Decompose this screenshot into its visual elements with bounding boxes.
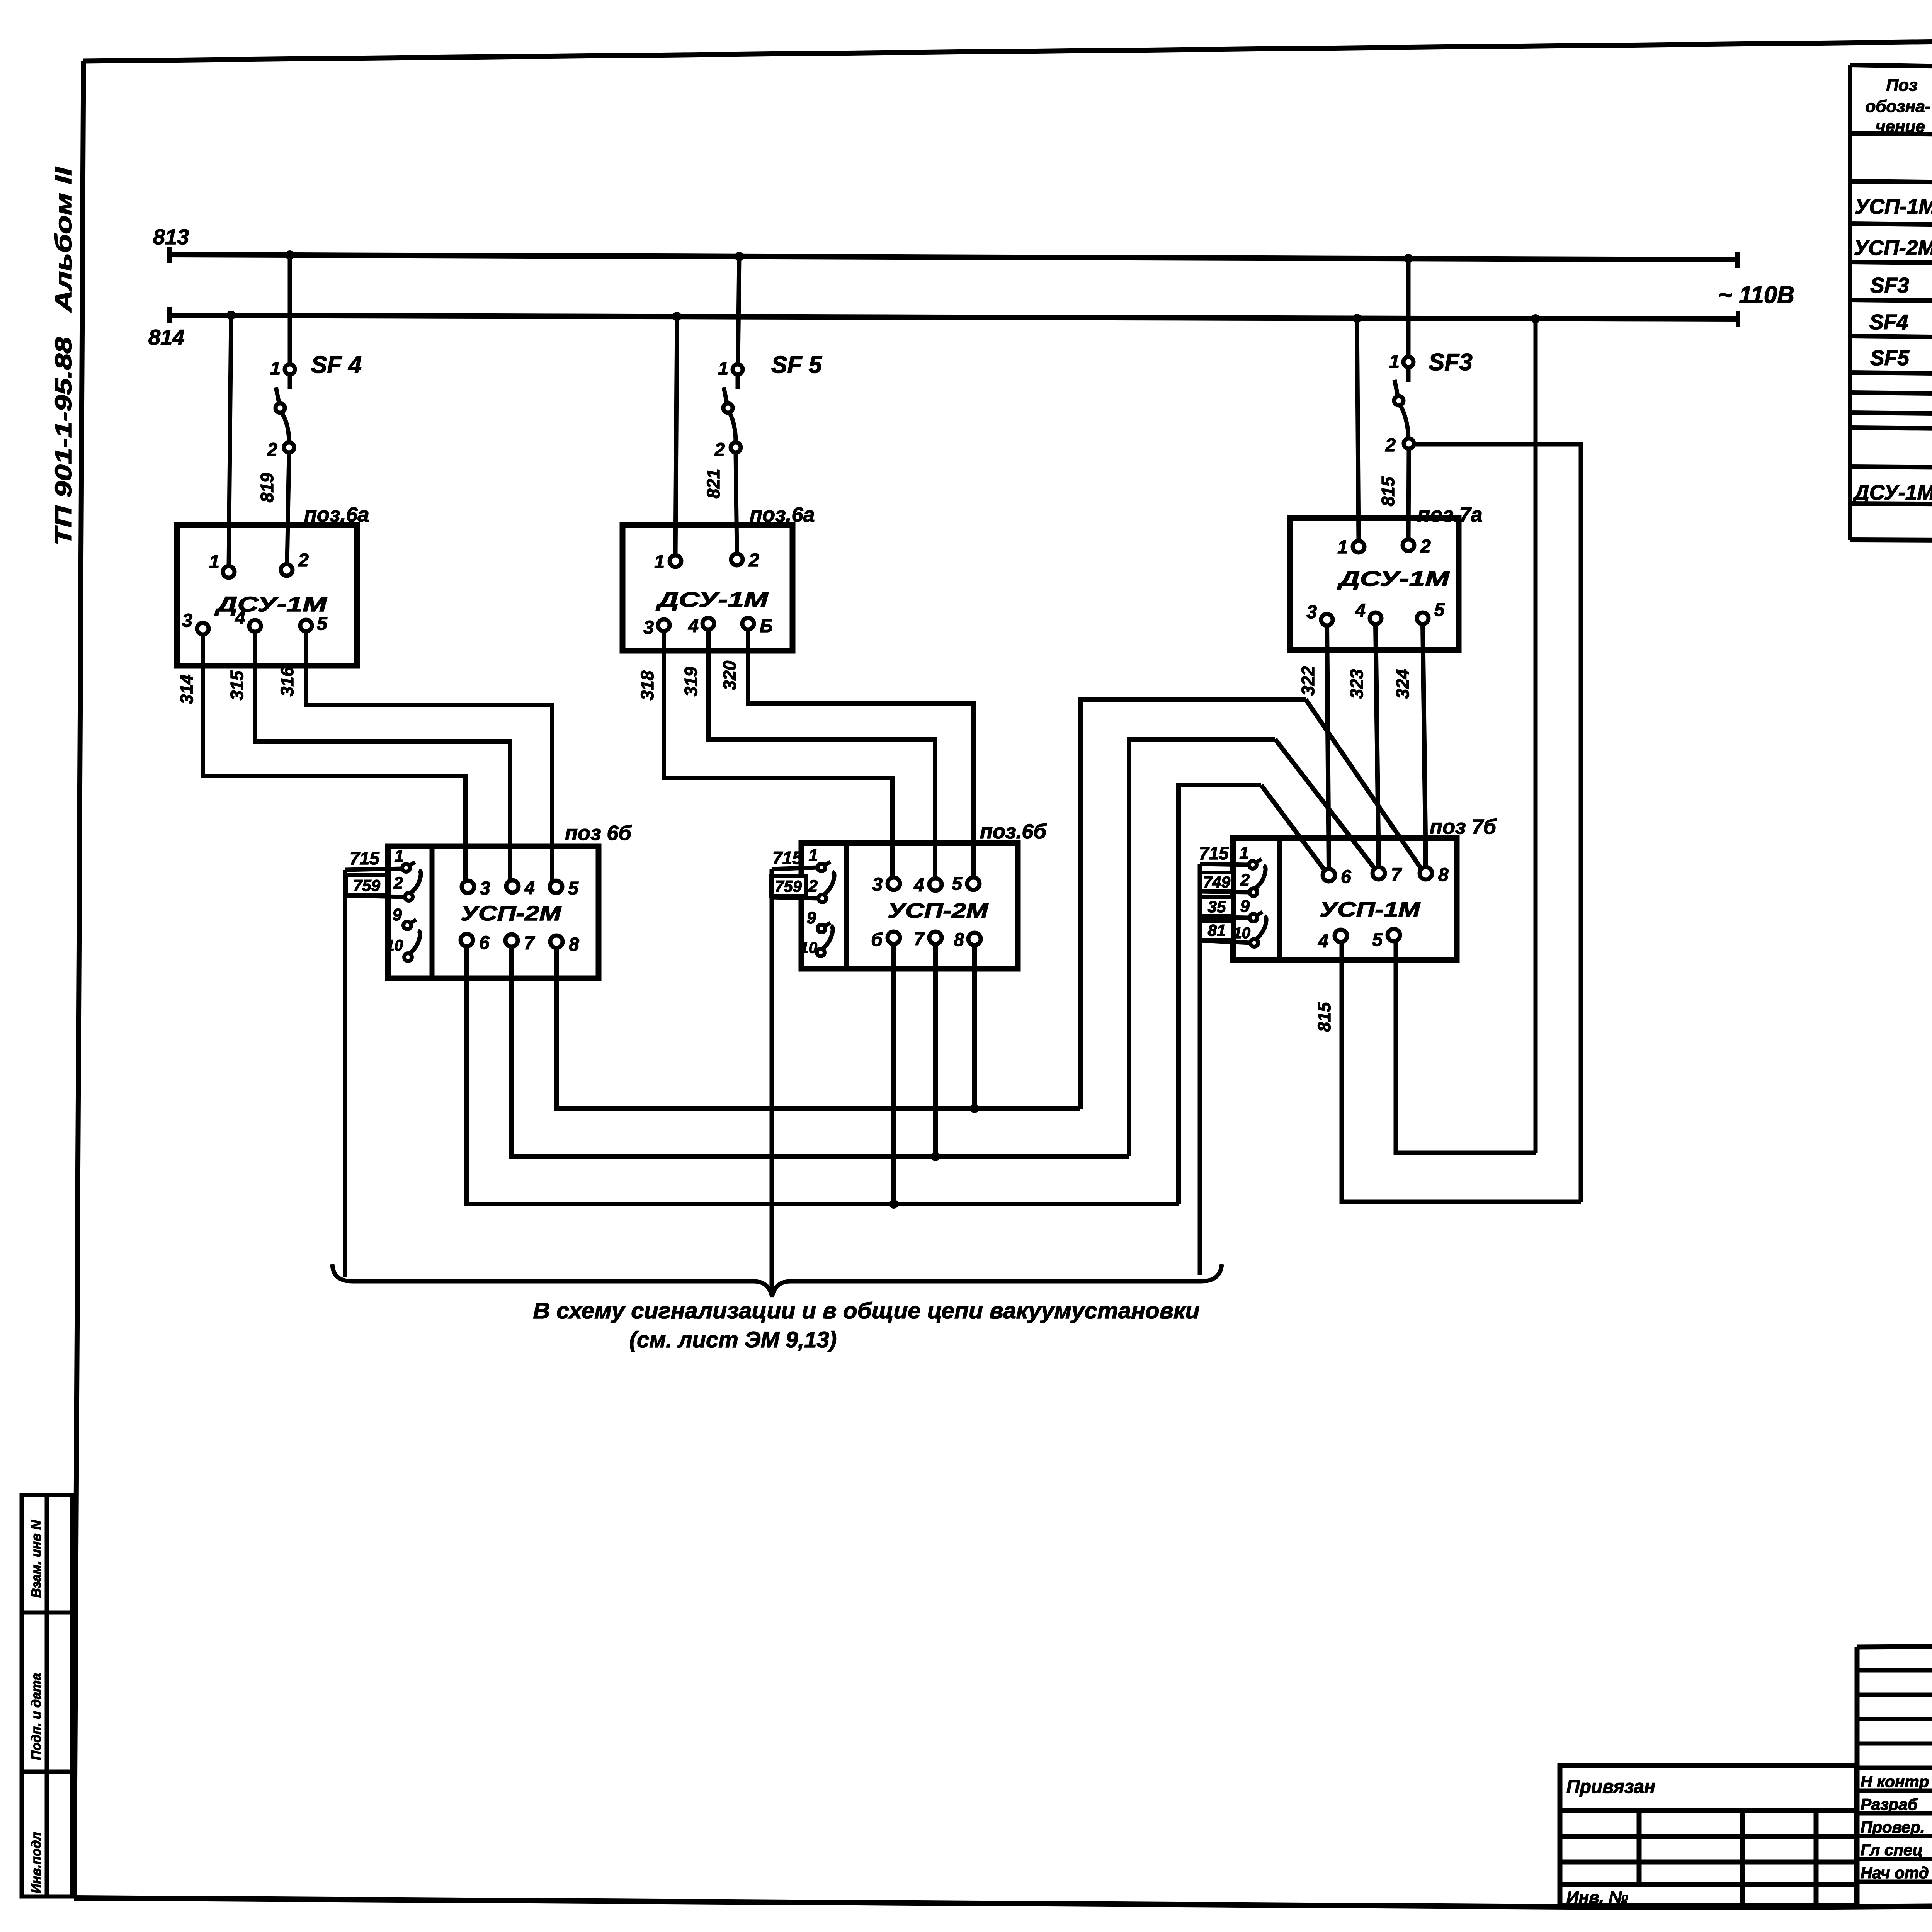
USP2M2 pin 5 (967, 878, 980, 890)
node junction pin8 bus (970, 1104, 979, 1113)
svg-text:Привязан: Привязан (1566, 1777, 1655, 1797)
title block small grid rows (1857, 1670, 1932, 1882)
svg-text:4: 4 (1318, 931, 1328, 952)
wire tag 749 (1201, 872, 1233, 891)
svg-text:SF4: SF4 (1869, 310, 1908, 334)
svg-text:5: 5 (1372, 930, 1383, 950)
DSU2 pin 2 (731, 554, 743, 565)
svg-text:815: 815 (1378, 476, 1398, 506)
svg-text:ДСУ-1М: ДСУ-1М (656, 588, 769, 611)
svg-text:УСП-1М: УСП-1М (1320, 898, 1420, 921)
svg-text:2: 2 (298, 550, 309, 571)
wire 315 (255, 632, 510, 880)
USP1M pin 5 (1388, 929, 1400, 941)
svg-text:В схему сигнализации и в общи: В схему сигнализации и в общие цепи ваку… (533, 1298, 1200, 1323)
svg-text:9: 9 (807, 908, 816, 927)
USP2M1 contact 9 (393, 905, 416, 929)
wire pin6 bus bottom (467, 946, 1179, 1204)
svg-text:322: 322 (1298, 666, 1318, 696)
svg-text:ДСУ-1М: ДСУ-1М (1337, 567, 1450, 590)
sensor DSU-1M no1 box (177, 525, 357, 666)
svg-text:Инв. №: Инв. № (1566, 1888, 1628, 1907)
svg-text:316: 316 (277, 667, 297, 696)
wire 319 (708, 629, 935, 878)
svg-text:Б: Б (760, 616, 773, 636)
wire riser to usp1m pin5 (1396, 941, 1536, 1153)
svg-text:б: б (871, 930, 883, 950)
border frame top (83, 34, 1932, 61)
DSU2 pin 1 (670, 555, 681, 567)
svg-text:УСП-2М: УСП-2М (1854, 236, 1932, 260)
DSU3 pin 1 (1353, 541, 1364, 553)
receiver USP-2M no1 box (388, 846, 599, 978)
USP2M1 contact 1 (395, 847, 415, 872)
svg-text:Поз: Поз (1886, 76, 1918, 95)
svg-text:Альбом II: Альбом II (51, 167, 77, 313)
svg-text:7: 7 (524, 933, 535, 954)
svg-text:3: 3 (643, 617, 654, 638)
wire 316 (306, 631, 552, 881)
svg-text:поз 7б: поз 7б (1430, 815, 1497, 838)
USP1M contact 1 (1240, 844, 1262, 869)
svg-text:SF5: SF5 (1870, 346, 1910, 370)
wire 749 usp1m (1200, 891, 1250, 892)
USP2M1 pin 5 (550, 881, 562, 893)
title block frame (1857, 1642, 1932, 1906)
wire 814 to DSU1 pin1 (229, 315, 231, 566)
svg-text:2: 2 (808, 877, 818, 896)
USP1M pin 8 (1420, 867, 1432, 879)
wire 715 usp1m (1200, 864, 1249, 865)
wire 759 usp2m2 (772, 897, 818, 898)
svg-text:315: 315 (227, 670, 247, 700)
svg-text:320: 320 (719, 660, 740, 690)
svg-text:81: 81 (1208, 921, 1226, 939)
table header poz oboznachenie (1865, 76, 1930, 136)
svg-text:УСП-2М: УСП-2М (888, 899, 988, 922)
wire 324 (1423, 624, 1426, 867)
DSU1 pin 4 (249, 620, 261, 632)
USP2M1 pin 3 (462, 881, 474, 893)
svg-text:1: 1 (209, 552, 219, 572)
node junction pin6 bus (889, 1199, 898, 1209)
wire usp2m2 pin8 to usp1m pin8 riser (1080, 699, 1306, 1109)
svg-text:Подп. и дата: Подп. и дата (29, 1673, 44, 1760)
wire usp2m2 pin7 drop (933, 944, 938, 1156)
wire diagonal to usp1m pin7 (1275, 739, 1374, 868)
svg-text:5: 5 (568, 878, 579, 899)
border frame bottom (74, 1898, 1932, 1908)
svg-text:819: 819 (257, 473, 277, 502)
USP2M2 pin 4 (929, 878, 942, 891)
USP2M2 pin 3 (888, 878, 900, 890)
USP2M2 contact 2 (808, 872, 835, 902)
svg-text:поз.6а: поз.6а (304, 503, 369, 526)
svg-text:1: 1 (270, 359, 281, 379)
node junction 814 usp1m pin5 drop (1531, 314, 1540, 323)
breaker SF3 (1394, 259, 1414, 540)
USP1M contact 9 (1240, 897, 1262, 922)
DSU1 pin 2 (281, 564, 293, 576)
USP2M2 pin 7 (929, 932, 942, 944)
parts table frame (1850, 65, 1932, 543)
bus 813 (170, 247, 1738, 268)
USP2M1 contact 10 (386, 930, 420, 961)
wire 814 to DSU3 pin1 (1357, 318, 1359, 541)
svg-text:Н контр: Н контр (1861, 1772, 1929, 1791)
USP2M2 pin 6 (888, 932, 900, 944)
wire 323 (1376, 624, 1379, 867)
wire pin8 bus bottom (556, 948, 1080, 1109)
wire tag 35 (1201, 897, 1233, 916)
wire usp2m2 pin6 drop (891, 944, 896, 1204)
wire 318 (664, 631, 892, 878)
wire usp2m2 pin6 to usp1m pin6 riser (1179, 785, 1261, 1204)
DSU1 pin 1 (223, 566, 235, 578)
svg-text:6: 6 (479, 933, 490, 953)
svg-text:5: 5 (317, 614, 328, 634)
wire 759 usp2m1 (345, 896, 405, 897)
DSU3 pin 5 (1417, 612, 1429, 624)
wire usp2m2 pin7 to usp1m pin7 riser (1129, 739, 1275, 1156)
DSU1 pin 3 (197, 623, 209, 634)
node junction 814 DSU3 (1352, 314, 1362, 323)
svg-text:9: 9 (393, 905, 402, 924)
svg-text:314: 314 (177, 675, 197, 704)
svg-text:Нач отд: Нач отд (1861, 1864, 1929, 1882)
USP1M pin 7 (1372, 867, 1385, 879)
node junction pin7 bus (931, 1152, 940, 1161)
svg-text:SF3: SF3 (1429, 349, 1473, 376)
svg-text:821: 821 (703, 469, 723, 499)
breaker SF4 (276, 255, 295, 565)
svg-text:2: 2 (714, 440, 725, 460)
USP2M2 contact 10 (800, 926, 833, 956)
svg-text:2: 2 (1420, 536, 1431, 557)
USP2M2 pin 8 (968, 933, 981, 945)
svg-text:SF 4: SF 4 (311, 352, 362, 378)
svg-text:1: 1 (1240, 844, 1249, 862)
wire 715 usp2m2 (772, 867, 818, 869)
wire 715 usp2m1 (345, 869, 402, 870)
svg-text:759: 759 (775, 877, 802, 895)
svg-text:4: 4 (688, 616, 699, 636)
USP1M pin 4 (1335, 930, 1347, 942)
DSU3 pin 2 (1403, 539, 1414, 551)
USP2M2 contact 1 (809, 846, 830, 871)
svg-text:ДСУ-1М: ДСУ-1М (1852, 480, 1932, 504)
svg-text:319: 319 (681, 667, 701, 696)
DSU2 pin 3 (658, 619, 670, 631)
USP1M pin 6 (1323, 869, 1335, 881)
svg-text:3: 3 (182, 611, 192, 631)
svg-text:3: 3 (1306, 602, 1317, 622)
svg-text:ТП 901-1-95.88: ТП 901-1-95.88 (51, 337, 77, 546)
svg-text:8: 8 (569, 934, 579, 955)
DSU2 pin 4 (702, 618, 714, 629)
svg-text:35: 35 (1208, 898, 1226, 916)
svg-text:4: 4 (1355, 600, 1366, 621)
USP2M1 contact 2 (393, 870, 421, 901)
svg-text:749: 749 (1203, 873, 1231, 891)
sensor DSU-1M no3 box (1290, 518, 1459, 650)
svg-text:759: 759 (353, 876, 381, 895)
node junction 813 SF5 (735, 252, 744, 261)
svg-text:6: 6 (1341, 867, 1351, 887)
svg-text:Гл спец: Гл спец (1861, 1841, 1923, 1859)
svg-text:2: 2 (267, 440, 277, 460)
svg-text:3: 3 (872, 874, 883, 895)
wire 314 (203, 634, 466, 881)
wire 322 (1327, 626, 1329, 869)
svg-text:4: 4 (913, 875, 924, 896)
svg-text:SF3: SF3 (1870, 273, 1909, 297)
svg-text:Провер.: Провер. (1861, 1818, 1925, 1836)
sensor DSU-1M no2 box (622, 525, 793, 651)
svg-text:4: 4 (524, 878, 535, 898)
svg-text:324: 324 (1393, 669, 1413, 699)
svg-text:814: 814 (148, 325, 184, 349)
wire pin7 bus bottom (512, 947, 1129, 1156)
left stamp boxes (22, 1495, 72, 1896)
wire diagonal to usp1m pin8 (1306, 699, 1421, 869)
svg-text:поз.6б: поз.6б (980, 820, 1047, 843)
svg-text:Инв.подл: Инв.подл (29, 1832, 44, 1893)
svg-text:10: 10 (386, 937, 403, 954)
svg-text:(см. лист ЭМ 9,13): (см. лист ЭМ 9,13) (629, 1327, 837, 1352)
DSU3 pin 3 (1321, 614, 1333, 626)
wire tag 81 (1201, 921, 1233, 940)
svg-text:1: 1 (1389, 352, 1400, 372)
svg-text:УСП-2М: УСП-2М (461, 902, 561, 925)
USP1M contact 10 (1233, 916, 1267, 947)
svg-text:9: 9 (1240, 897, 1250, 916)
svg-text:Взам. инв N: Взам. инв N (29, 1520, 44, 1598)
wire 814 riser down to usp1m pin5 (1534, 319, 1538, 1153)
wire 35 usp1m (1200, 917, 1250, 918)
border frame left (74, 61, 83, 1898)
USP2M1 pin 4 (506, 880, 519, 893)
svg-text:10: 10 (800, 939, 818, 956)
wire usp2m1 drop to brace (343, 870, 347, 1277)
USP2M2 contact 9 (807, 908, 830, 932)
svg-text:715: 715 (350, 848, 380, 868)
node junction 813 SF3 (1404, 254, 1413, 263)
svg-text:чение: чение (1876, 117, 1925, 136)
wire usp1m drop to brace (1198, 864, 1202, 1275)
svg-text:8: 8 (954, 930, 964, 950)
DSU3 pin 4 (1370, 612, 1381, 624)
receiver USP-2M no2 box (801, 843, 1018, 969)
wire diagonal to usp1m pin6 (1261, 785, 1325, 870)
svg-text:УСП-1М: УСП-1М (1855, 194, 1932, 218)
svg-text:поз 6б: поз 6б (565, 821, 632, 845)
wire riser to usp1m pin4 (1342, 942, 1581, 1202)
brace to signal circuits (332, 1264, 1222, 1297)
USP2M1 pin 8 (550, 935, 563, 948)
svg-text:10: 10 (1233, 925, 1251, 942)
wire 320 (748, 629, 973, 878)
USP1M contact 2 (1240, 866, 1266, 896)
wire usp2m2 pin8 drop (972, 945, 977, 1109)
wire tag 759 usp2m2 (771, 876, 806, 896)
bus 814 (170, 307, 1738, 327)
svg-text:715: 715 (772, 848, 803, 868)
svg-text:поз.7а: поз.7а (1417, 503, 1483, 526)
svg-text:5: 5 (1434, 600, 1445, 620)
svg-text:3: 3 (480, 878, 490, 899)
svg-text:1: 1 (718, 359, 728, 379)
svg-text:Разраб: Разраб (1861, 1795, 1918, 1813)
wire 81 usp1m (1200, 940, 1250, 943)
svg-text:7: 7 (1391, 865, 1402, 885)
svg-text:7: 7 (914, 929, 925, 949)
USP2M1 pin 7 (505, 934, 518, 947)
node junction 814 DSU1 (226, 311, 236, 320)
USP2M1 pin 6 (461, 934, 473, 946)
svg-text:813: 813 (153, 224, 189, 249)
node junction 814 DSU2 (672, 312, 682, 321)
svg-text:4: 4 (235, 608, 245, 628)
privyazan block (1560, 1765, 1857, 1905)
svg-text:318: 318 (637, 670, 657, 700)
svg-text:~ 110В: ~ 110В (1718, 282, 1794, 308)
DSU2 pin 5 (742, 618, 754, 629)
svg-text:1: 1 (654, 552, 665, 572)
svg-text:SF 5: SF 5 (771, 352, 822, 378)
svg-text:2: 2 (748, 550, 759, 571)
svg-text:2: 2 (1240, 871, 1250, 889)
svg-text:2: 2 (1385, 435, 1396, 456)
svg-text:ДСУ-1М: ДСУ-1М (214, 593, 327, 616)
svg-text:8: 8 (1438, 865, 1449, 885)
receiver USP-1M box (1233, 838, 1457, 960)
svg-text:5: 5 (952, 874, 963, 894)
breaker SF5 (723, 257, 743, 554)
svg-text:обозна-: обозна- (1865, 97, 1930, 116)
svg-text:1: 1 (395, 847, 404, 866)
wire 814 to DSU2 pin1 (675, 316, 677, 556)
wire tag 759 usp2m1 (346, 875, 387, 895)
svg-text:2: 2 (393, 874, 403, 893)
svg-text:1: 1 (809, 846, 818, 865)
svg-text:поз.6а: поз.6а (750, 503, 815, 526)
svg-text:715: 715 (1199, 843, 1229, 863)
DSU1 pin 5 (300, 620, 312, 631)
svg-text:815: 815 (1314, 1002, 1334, 1032)
wire usp2m2 drop to brace (770, 869, 774, 1293)
svg-text:1: 1 (1337, 537, 1348, 558)
wire SF3 pin2 to right riser 815 (1414, 444, 1581, 1202)
node junction 813 SF4 (285, 250, 294, 260)
svg-text:323: 323 (1347, 669, 1367, 699)
